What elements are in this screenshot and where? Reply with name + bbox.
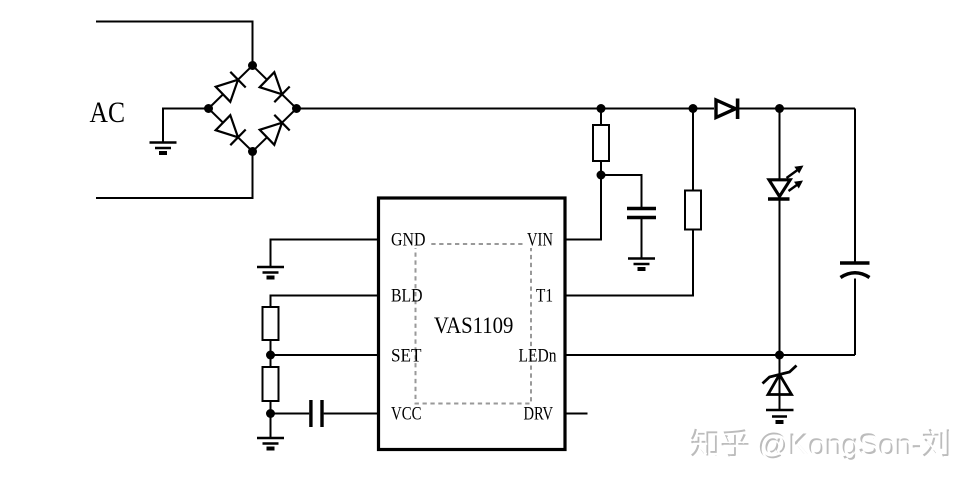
resistor R4 (263, 367, 279, 401)
wire zener to ground (779, 375, 781, 410)
wire node B to R4 (270, 355, 272, 367)
svg-text:VAS1109: VAS1109 (434, 313, 514, 338)
node B R3-SET junction (266, 351, 275, 360)
wire DRV stub (565, 413, 588, 415)
wire R2 top lead (692, 109, 694, 191)
capacitor C3 (311, 400, 322, 427)
wire BLD pin to R3 (271, 296, 379, 308)
ground zener (766, 410, 794, 422)
wire R2 to T1 (565, 230, 693, 296)
watermark @KongSon- (758, 428, 924, 463)
wire AC bottom lead (96, 152, 253, 199)
node C R4-VCC junction (266, 409, 275, 418)
wire C2 top lead (854, 109, 856, 262)
wire zener top lead (779, 355, 781, 375)
svg-text:DRV: DRV (524, 405, 554, 425)
svg-text:BLD: BLD (391, 287, 423, 307)
watermark 乎 (722, 429, 751, 458)
diode D1 bridge top-left (216, 72, 246, 102)
wire VCC pin to C3 (324, 413, 379, 415)
wire R3 to node B (270, 340, 272, 355)
capacitor C2 polarized (840, 263, 870, 278)
wire GND pin to ground (271, 240, 379, 267)
node bridge right (292, 104, 301, 113)
wire AC neutral stub (163, 109, 209, 143)
capacitor C1 (627, 209, 656, 218)
IC internal dashed box (416, 244, 532, 404)
zener ZD1 (763, 366, 797, 395)
svg-text:GND: GND (391, 231, 426, 251)
node bridge top (248, 61, 257, 70)
wire C2 bottom lead (854, 279, 856, 356)
LED arrows (787, 166, 804, 192)
resistor R3 (263, 307, 279, 340)
wire bridge edges (209, 66, 297, 152)
LED D6 (768, 180, 790, 199)
ground GND pin (257, 267, 284, 278)
ground VCC (257, 438, 284, 449)
wire R4 to node C (270, 401, 272, 414)
wire LEDn rail (565, 354, 855, 356)
wire R1 top lead (600, 109, 602, 126)
watermark 知 (691, 429, 719, 458)
svg-text:SET: SET (391, 347, 422, 367)
resistor R2 (685, 191, 701, 230)
resistor R1 (593, 125, 609, 161)
wire main rail right of D5 (738, 108, 856, 110)
diode D2 bridge top-right (260, 72, 290, 102)
svg-text:LEDn: LEDn (519, 347, 557, 367)
svg-text:T1: T1 (536, 287, 553, 307)
ground C1 (628, 259, 655, 270)
node R2 rail (689, 104, 698, 113)
node LED rail (775, 104, 784, 113)
wire C3 to node C (271, 413, 310, 415)
node R1 rail (597, 104, 606, 113)
wire LED cathode to LEDn rail (779, 199, 781, 355)
wire node A down to VIN (565, 175, 601, 240)
svg-text:AC: AC (90, 96, 126, 129)
svg-text:VIN: VIN (527, 231, 553, 251)
diode D5 series (716, 99, 738, 120)
node bridge left (204, 104, 213, 113)
ground AC (150, 143, 177, 154)
node LED-zener junction (775, 351, 784, 360)
label masks (388, 231, 428, 248)
wire R1 bottom to node A (600, 161, 602, 175)
wire C1 to ground (641, 219, 643, 258)
diode D3 bridge bottom-left (216, 115, 246, 145)
svg-text:@KongSon-: @KongSon- (759, 430, 923, 463)
node bridge bottom (248, 147, 257, 156)
node A R1-C1 junction (597, 171, 606, 180)
wire AC top lead (96, 22, 253, 66)
wire node A to C1 (601, 175, 642, 207)
wire main rail left of D5 (297, 108, 715, 110)
diode D4 bridge bottom-right (260, 115, 290, 145)
IC U1 box (379, 198, 566, 450)
wire LED top lead (779, 109, 781, 181)
wire SET pin (271, 354, 379, 356)
watermark 刘 (923, 429, 951, 458)
wire node C to ground (270, 414, 272, 438)
svg-text:VCC: VCC (391, 405, 422, 425)
